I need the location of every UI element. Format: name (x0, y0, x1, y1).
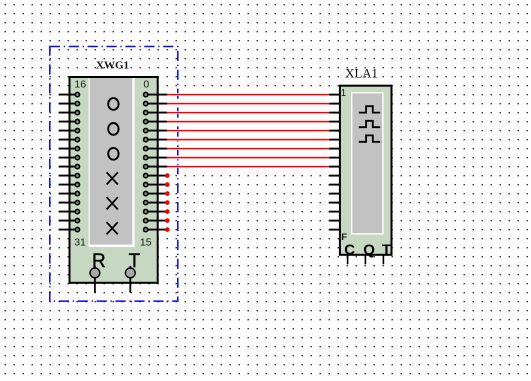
symbol X 3 (107, 222, 118, 234)
svg-text:31: 31 (74, 237, 86, 249)
R terminal (90, 266, 100, 293)
XLA1 bottom pins C Q T (348, 255, 384, 264)
symbol O 2 (108, 123, 118, 135)
unconnected pin dots (165, 173, 170, 232)
svg-text:XLA1: XLA1 (345, 67, 378, 81)
XLA1 left pins 1-16 (329, 95, 340, 230)
svg-text:15: 15 (140, 237, 152, 249)
T terminal (125, 266, 135, 293)
svg-text:16: 16 (74, 79, 86, 91)
svg-text:1: 1 (341, 88, 346, 99)
pulse icon 1 (359, 106, 380, 112)
svg-text:XWG1: XWG1 (96, 60, 129, 72)
svg-text:C: C (344, 241, 355, 258)
XWG1 display panel (89, 78, 135, 247)
wires XWG1 to XLA1 (168, 95, 330, 167)
XLA1 screen panel (351, 92, 384, 235)
svg-text:0: 0 (143, 79, 149, 91)
symbol O 3 (108, 148, 118, 160)
symbol X 1 (107, 172, 118, 184)
symbol O 1 (108, 98, 118, 110)
pulse icon 3 (359, 135, 380, 141)
selection box around XWG1 (50, 47, 178, 302)
XWG1 left pins 16-31 (59, 92, 80, 231)
word generator XWG1 body (70, 77, 158, 283)
symbol X 2 (107, 197, 118, 209)
pulse icon 2 (359, 121, 380, 127)
XWG1 right pins 0-15 (144, 92, 167, 231)
logic analyzer XLA1 body (340, 86, 392, 255)
